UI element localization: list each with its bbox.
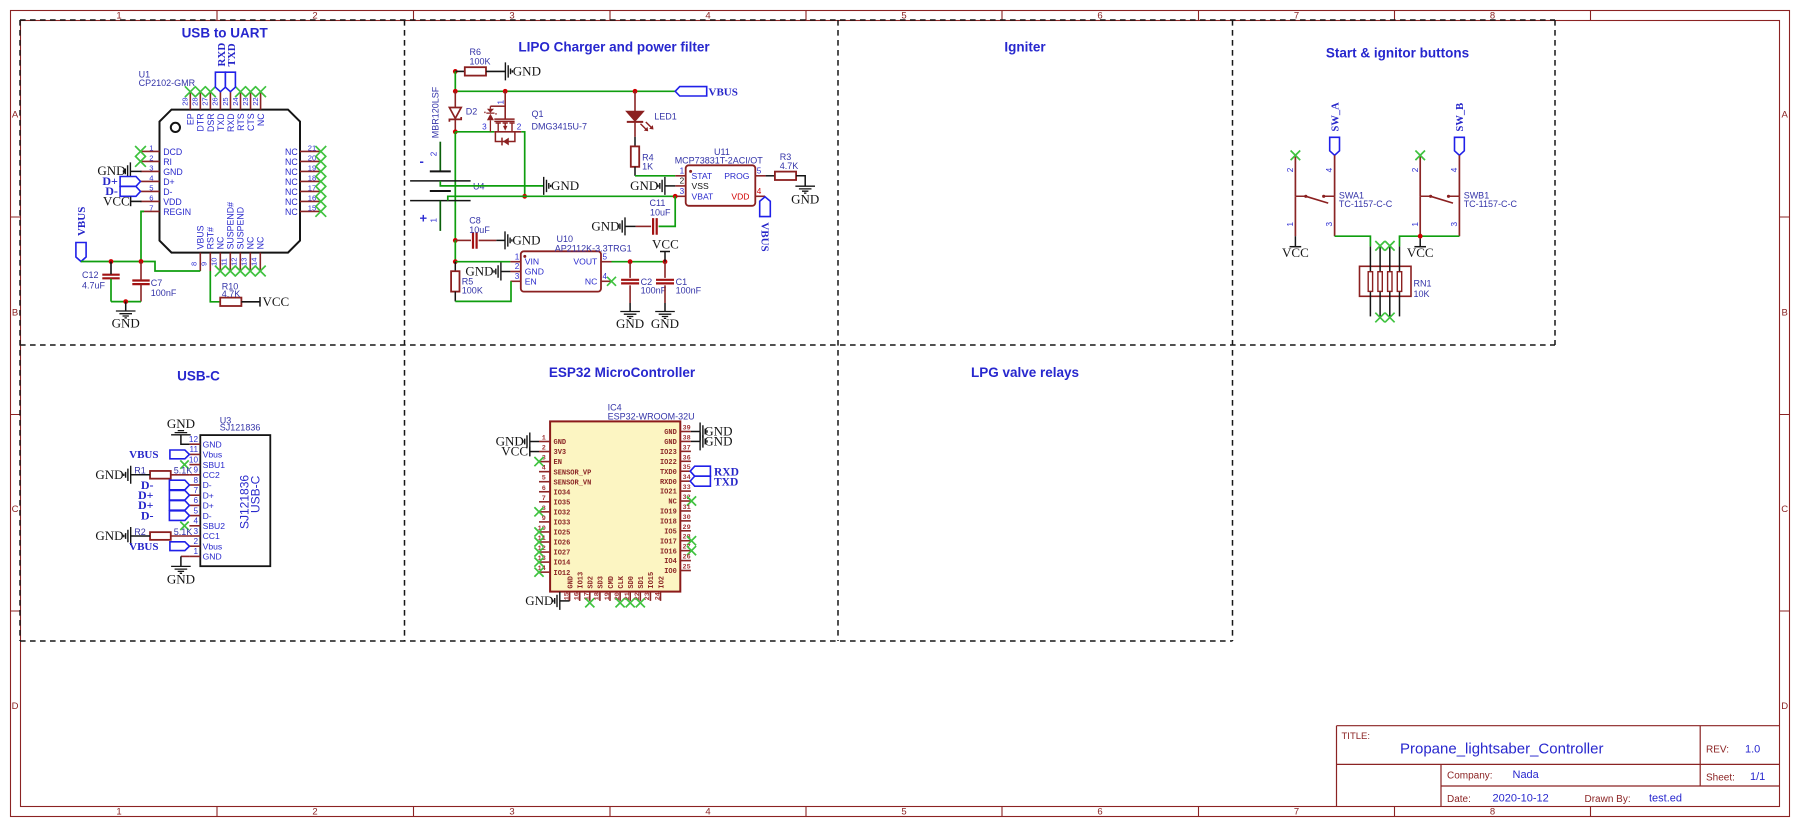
svg-text:IO32: IO32 (554, 509, 571, 517)
svg-text:2: 2 (429, 151, 438, 156)
capacitor C1 (656, 280, 674, 284)
IC4 pin 28 stub (680, 540, 691, 542)
junction VBUS at LED1 (633, 89, 638, 94)
IC4 pin 36 stub (680, 460, 691, 462)
svg-text:GND: GND (203, 439, 222, 449)
U3 pin10 no-connect X (180, 460, 188, 468)
svg-text:PROG: PROG (724, 171, 750, 181)
switch SWA1 pin1 line (1294, 196, 1296, 236)
RN1 element 2 (1378, 272, 1382, 292)
svg-text:5: 5 (542, 475, 546, 483)
svg-text:21: 21 (308, 144, 316, 153)
U1 bottom pin 14 no-connect X (255, 266, 266, 277)
svg-text:NC: NC (585, 276, 597, 286)
RN1 bottom no-connect X a (1375, 313, 1385, 323)
IC4 pin 34 stub (680, 480, 691, 482)
R1 right lead (171, 474, 190, 476)
ground symbol at U4 (544, 177, 551, 195)
svg-text:D+: D+ (203, 501, 214, 511)
U1 top pin 22 no-connect X (255, 86, 266, 97)
svg-text:USB-C: USB-C (249, 475, 263, 513)
ground symbol at U11 VSS (658, 177, 665, 195)
U3 pin 8 stub (189, 484, 200, 486)
svg-text:NC: NC (256, 113, 266, 126)
svg-text:5: 5 (901, 807, 906, 818)
battery U4 pin1 stub (439, 201, 441, 231)
wire battery minus to GND (440, 181, 543, 186)
diode D2 schottky bar (449, 117, 461, 122)
U1 right pin 20 no-connect X (315, 156, 326, 167)
U1 right pin 21 stub (300, 150, 321, 152)
svg-text:100K: 100K (470, 57, 491, 67)
U10 pin2 stub (510, 271, 520, 273)
svg-text:2: 2 (312, 807, 317, 818)
ground symbol at R1 (124, 466, 131, 484)
wire C12-C7 ground bus (111, 301, 141, 303)
RN1 pin top 4 (1399, 246, 1401, 271)
ground symbol below U3 pin1 (171, 566, 191, 573)
svg-text:2020-10-12: 2020-10-12 (1493, 793, 1549, 805)
svg-text:LIPO Charger and power filter: LIPO Charger and power filter (518, 40, 710, 55)
hier label flag RXD at U1 pin26 (215, 72, 225, 92)
svg-text:TXD: TXD (226, 43, 238, 66)
U1 pin 2 stub (141, 160, 160, 162)
U3 pin 11 stub (189, 453, 200, 455)
resistor R4 (631, 146, 639, 166)
svg-text:GND: GND (112, 316, 140, 331)
svg-text:4: 4 (603, 272, 608, 281)
RN1 bottom no-connect X b (1385, 313, 1395, 323)
U1 pin 1 stub (141, 150, 160, 152)
IC4 pin 39 stub (680, 431, 691, 433)
svg-text:D2: D2 (466, 106, 478, 116)
svg-text:SUSPEND#: SUSPEND# (226, 202, 236, 250)
C8 ground wire (496, 239, 505, 241)
U1 right pin 21 no-connect X (315, 146, 326, 157)
U1 right pin 15 no-connect X (315, 206, 326, 217)
svg-text:TXD0: TXD0 (660, 469, 677, 477)
svg-text:VDD: VDD (731, 191, 749, 201)
switch SWA1 contact dots (1304, 195, 1307, 198)
switch SWB1 pin4 line (1458, 155, 1460, 196)
svg-text:CTS: CTS (246, 113, 256, 131)
net label flag D- at USB-C (169, 511, 189, 521)
VCC bar at R10 (259, 297, 261, 307)
svg-text:IO26: IO26 (554, 540, 571, 548)
Q1 zener stem and bar (485, 106, 496, 132)
IC4 pin 2 stub (539, 451, 550, 453)
wire U11 PROG to R3 (766, 175, 775, 177)
svg-text:IO23: IO23 (660, 449, 677, 457)
U1 top pin 24 stub (240, 92, 242, 110)
svg-text:100K: 100K (462, 286, 483, 296)
IC4 pin 3 stub (539, 461, 550, 463)
svg-text:6: 6 (193, 496, 198, 505)
U1 bottom pin 12 no-connect X (235, 266, 246, 277)
svg-text:SD1: SD1 (638, 576, 646, 589)
LED1 cathode bar (627, 121, 643, 123)
svg-text:RST#: RST# (206, 227, 216, 250)
U11 VSS wire (665, 185, 675, 187)
C1 top lead (664, 262, 666, 278)
svg-text:IO33: IO33 (554, 520, 571, 528)
svg-text:VCC: VCC (1407, 245, 1434, 260)
hier label flag SW_A (1330, 137, 1340, 155)
svg-text:18: 18 (308, 174, 316, 183)
U11 pin1 dot (689, 170, 692, 173)
IC4 pin 16 stub (579, 592, 581, 601)
svg-text:4: 4 (193, 517, 198, 526)
U3 pin 12 stub (189, 443, 200, 445)
svg-text:U10: U10 (557, 234, 574, 244)
switch SWB1 pin3 line (1458, 196, 1460, 236)
svg-text:9: 9 (542, 515, 546, 523)
power flag VBUS at U3 pin11 (170, 450, 190, 459)
svg-text:ESP32-WROOM-32U: ESP32-WROOM-32U (608, 412, 695, 422)
svg-text:NC: NC (285, 187, 298, 197)
Q1 zener connect (490, 105, 505, 107)
svg-text:1/1: 1/1 (1750, 771, 1765, 783)
battery U4 plate long2 (410, 200, 471, 202)
svg-text:SENSOR_VP: SENSOR_VP (554, 469, 592, 477)
wire C11 drop (659, 196, 676, 226)
svg-text:3: 3 (193, 527, 198, 536)
wire R6 node down (454, 71, 456, 91)
U1 right pin 17 stub (300, 190, 321, 192)
svg-text:4: 4 (1450, 167, 1459, 172)
wire U10 VOUT to VCC node (612, 261, 666, 263)
svg-text:VBUS: VBUS (129, 541, 158, 553)
svg-text:4: 4 (757, 187, 762, 196)
resistor network RN1 box (1360, 266, 1412, 296)
svg-text:GND: GND (554, 439, 567, 447)
svg-text:6: 6 (542, 485, 546, 493)
U3 pin 7 stub (189, 494, 200, 496)
svg-text:GND: GND (95, 467, 123, 482)
svg-text:100nF: 100nF (151, 288, 177, 298)
R1 left wire (131, 474, 150, 476)
battery U4 plate short1 (430, 170, 451, 172)
svg-text:TC-1157-C-C: TC-1157-C-C (1339, 199, 1393, 209)
U1 right pin 17 no-connect X (315, 186, 326, 197)
svg-text:13: 13 (240, 258, 249, 266)
svg-text:C8: C8 (469, 216, 481, 226)
switch SWA1 pin4 line (1334, 155, 1336, 196)
svg-text:SD0: SD0 (628, 576, 636, 589)
svg-text:RTS: RTS (236, 113, 246, 131)
svg-text:4: 4 (1325, 167, 1334, 172)
IC4 pin 37 stub (680, 450, 691, 452)
IC4 pin 10 stub (539, 531, 550, 533)
svg-text:4.7K: 4.7K (780, 161, 799, 171)
U1 pin3 ground wire (130, 170, 141, 172)
power flag VBUS at U3 pin2 (170, 542, 190, 551)
IC4 pin 15 stub (569, 592, 571, 601)
U1 top pin 27 stub (209, 92, 211, 110)
svg-text:1: 1 (116, 807, 121, 818)
Q1 channel bar (494, 120, 514, 122)
U1 bottom pin 11 no-connect X (225, 266, 236, 277)
net label flag D- at USB-C (169, 480, 189, 490)
svg-text:20: 20 (308, 154, 316, 163)
svg-text:2: 2 (542, 445, 546, 453)
svg-text:1: 1 (496, 100, 505, 105)
svg-text:5: 5 (149, 184, 153, 193)
svg-text:25: 25 (221, 97, 230, 105)
IC4 pin1 ground wire (530, 441, 539, 443)
svg-text:VBUS: VBUS (709, 87, 738, 99)
svg-text:10uF: 10uF (469, 225, 490, 235)
wire Q1 drain down (521, 132, 524, 197)
hier label flag RXD at IC4 TXD0 (690, 466, 710, 476)
svg-text:NC: NC (285, 197, 298, 207)
svg-text:D-: D- (141, 508, 154, 522)
svg-text:+: + (420, 211, 428, 226)
svg-text:Date:: Date: (1447, 794, 1471, 805)
U1 top pin 28 stub (199, 92, 201, 110)
battery U4 plate short2 (430, 190, 451, 192)
wire VIN node down to R5 (454, 262, 456, 272)
svg-text:GND: GND (95, 528, 123, 543)
Q1 source-drain rail (494, 131, 521, 133)
U1 right pin 19 no-connect X (315, 166, 326, 177)
RN1 pin bottom 2 (1379, 291, 1381, 316)
D2 anode lead (454, 91, 456, 107)
U10 pin5 stub (601, 261, 612, 263)
svg-text:IO18: IO18 (660, 518, 677, 526)
VCC stub under SWA1 (1294, 236, 1296, 247)
D2 cathode lead (454, 119, 456, 131)
resistor R6 (465, 67, 486, 75)
IC4 pin 11 no-connect X (534, 537, 543, 546)
U1 top pin 28 no-connect X (195, 86, 206, 97)
RN1 pin bottom 1 (1369, 291, 1371, 316)
U11 pin3 stub (675, 195, 685, 197)
svg-text:GND: GND (513, 64, 541, 79)
junction VBUS at D2 (453, 89, 458, 94)
svg-text:1: 1 (515, 252, 520, 261)
C2 top lead (629, 262, 631, 278)
switch SWA1 lever (1306, 196, 1328, 203)
U3 pin 10 stub (189, 464, 200, 466)
svg-text:SD3: SD3 (598, 576, 606, 589)
switch SWB1 pin1 line (1419, 196, 1421, 236)
IC4 pin 1 stub (539, 441, 550, 443)
wire D2 node down to C8 (454, 132, 456, 241)
U1 pin6 VCC wire (131, 200, 142, 202)
svg-text:VCC: VCC (501, 444, 528, 459)
svg-text:IO15: IO15 (648, 572, 656, 589)
svg-text:5: 5 (603, 252, 608, 261)
IC4 pin 22 no-connect X (636, 598, 645, 607)
switch SWB1 pin2 line (1419, 155, 1421, 196)
C12 top lead (110, 262, 112, 275)
U1 bottom pin 10 stub (219, 253, 221, 271)
svg-text:2: 2 (517, 123, 522, 132)
U1 top pin 22 stub (260, 92, 262, 110)
IC4 pin 27 stub (680, 550, 691, 552)
svg-text:GND: GND (551, 178, 579, 193)
svg-text:USB-C: USB-C (177, 369, 220, 384)
svg-text:VOUT: VOUT (573, 257, 598, 267)
svg-text:D: D (12, 701, 19, 712)
IC4 pin 31 stub (680, 510, 691, 512)
svg-text:Nada: Nada (1513, 769, 1540, 781)
svg-text:3: 3 (1325, 222, 1334, 227)
RN1 element 4 (1397, 272, 1401, 292)
U1 top pin 27 no-connect X (205, 86, 216, 97)
svg-text:LED1: LED1 (654, 112, 677, 122)
IC4 pin 20 no-connect X (616, 598, 625, 607)
svg-text:VIN: VIN (525, 257, 539, 267)
IC4 pin 30 stub (680, 520, 691, 522)
U10 pin1 dot (523, 255, 526, 258)
svg-text:26: 26 (211, 97, 220, 105)
junction at SWB1 VCC (1418, 234, 1423, 239)
R6 right lead (486, 70, 505, 72)
svg-text:Vbus: Vbus (203, 541, 223, 551)
diode D2 triangle (449, 108, 461, 119)
svg-text:IO22: IO22 (660, 459, 677, 467)
svg-text:1: 1 (1286, 222, 1295, 227)
svg-text:SJ121836: SJ121836 (220, 422, 261, 432)
svg-text:CLK: CLK (618, 575, 626, 588)
R2 left wire (131, 535, 150, 537)
IC4 pin 21 no-connect X (626, 598, 635, 607)
Q1 body diode (503, 138, 509, 146)
svg-text:21: 21 (624, 592, 632, 600)
svg-text:11: 11 (220, 258, 229, 266)
svg-text:VCC: VCC (1282, 245, 1309, 260)
svg-text:NC: NC (285, 157, 298, 167)
svg-text:TITLE:: TITLE: (1342, 731, 1371, 742)
svg-text:7: 7 (193, 486, 198, 495)
IC4 pin 32 stub (680, 500, 691, 502)
svg-text:GND: GND (203, 552, 222, 562)
junction at ground bus (123, 299, 128, 304)
svg-text:100nF: 100nF (676, 285, 702, 295)
svg-text:SW_A: SW_A (1330, 102, 1341, 132)
U1 right pin 16 stub (300, 200, 321, 202)
net label flag D- at U1 pin5 (120, 187, 140, 197)
hier label flag TXD at IC4 RXD0 (690, 476, 710, 486)
svg-text:AP2112K-3.3TRG1: AP2112K-3.3TRG1 (555, 244, 632, 254)
svg-text:TXD: TXD (714, 476, 738, 488)
svg-text:GND: GND (163, 167, 183, 177)
capacitor C7 (132, 281, 149, 285)
IC4 pin 14 no-connect X (534, 568, 543, 577)
svg-text:EP: EP (186, 113, 196, 125)
ground stub under C12/C7 (125, 302, 127, 311)
svg-text:SUSPEND: SUSPEND (236, 207, 246, 250)
ground symbol at U10 GND pin (494, 263, 501, 281)
svg-text:IO13: IO13 (578, 572, 586, 589)
Q1 drain tap (509, 123, 514, 132)
svg-text:4: 4 (705, 807, 710, 818)
svg-text:2: 2 (149, 154, 153, 163)
svg-text:2: 2 (1411, 167, 1420, 172)
RN1 pin top 1 (1369, 246, 1371, 271)
U1 pin 1 no-connect X (135, 146, 146, 157)
svg-text:24: 24 (654, 592, 662, 600)
U1 pin 7 stub (141, 210, 160, 212)
U1 bottom pin 12 stub (239, 253, 241, 271)
C7 bottom lead (140, 285, 142, 302)
IC4 pin 25 stub (680, 570, 691, 572)
svg-text:test.ed: test.ed (1649, 793, 1682, 805)
svg-text:7: 7 (542, 495, 546, 503)
wire REGIN to cap node (141, 211, 144, 261)
svg-text:4: 4 (149, 174, 153, 183)
wire VBUS to U1 pin8 (81, 262, 200, 272)
IC4 pin 6 stub (539, 491, 550, 493)
svg-text:GND: GND (664, 429, 677, 437)
Q1 gate bar (494, 118, 514, 120)
IC4 pin 9 stub (539, 521, 550, 523)
svg-text:SBU2: SBU2 (203, 521, 226, 531)
svg-text:24: 24 (231, 97, 240, 105)
op-amp U1 body CP2102-GMR (160, 110, 301, 253)
U3 pin 2 stub (189, 545, 200, 547)
U1 pin3 ground symbol (124, 162, 131, 180)
IC4 pin 13 stub (539, 561, 550, 563)
svg-text:B: B (12, 308, 18, 319)
R2 right lead (171, 535, 190, 537)
svg-text:8: 8 (1490, 807, 1495, 818)
svg-text:NC: NC (216, 236, 226, 249)
IC4 pin 20 stub (619, 592, 621, 601)
area box boundaries (USB to UART / LIPO / Igniter / buttons / USB-C / ESP32 / LPG) (20, 20, 1555, 641)
svg-text:19: 19 (308, 164, 316, 173)
svg-text:12: 12 (189, 435, 199, 444)
svg-text:VCC: VCC (103, 193, 130, 208)
svg-text:16: 16 (574, 592, 582, 600)
svg-text:29: 29 (683, 524, 691, 532)
svg-text:VBUS: VBUS (196, 225, 206, 249)
svg-text:GND: GND (630, 178, 658, 193)
ground symbol under C12/C7 (116, 311, 136, 318)
svg-text:B: B (1782, 308, 1788, 319)
IC4 pin 21 stub (629, 592, 631, 601)
svg-text:3: 3 (1450, 222, 1459, 227)
C12 bottom lead (110, 279, 112, 302)
ground symbol at IC4 pin39 (700, 423, 707, 441)
svg-text:1: 1 (680, 166, 685, 175)
U1 right pin 20 stub (300, 160, 321, 162)
svg-text:C12: C12 (82, 270, 99, 280)
svg-text:IO35: IO35 (554, 499, 571, 507)
svg-text:NC: NC (285, 207, 298, 217)
svg-text:GND: GND (167, 416, 195, 431)
U1 pin 6 stub (141, 200, 160, 202)
svg-text:19: 19 (604, 592, 612, 600)
U1 top pin 23 no-connect X (245, 86, 256, 97)
IC4 pin 24 stub (660, 592, 662, 601)
svg-text:NC: NC (285, 167, 298, 177)
svg-text:7: 7 (1294, 807, 1299, 818)
ground symbol at IC4 pin38 (700, 432, 707, 450)
svg-text:4: 4 (705, 10, 710, 21)
svg-text:REGIN: REGIN (163, 207, 191, 217)
U11 pin5 stub (755, 175, 765, 177)
resistor R1 (150, 471, 171, 479)
junction at C1 (663, 259, 668, 264)
IC4 pin 27 no-connect X (687, 546, 696, 555)
U1 bottom pin 9 stub (209, 253, 211, 271)
U10 pin4 no-connect X (607, 277, 616, 286)
U1 pin 5 stub (141, 190, 160, 192)
svg-text:NC: NC (668, 499, 676, 507)
